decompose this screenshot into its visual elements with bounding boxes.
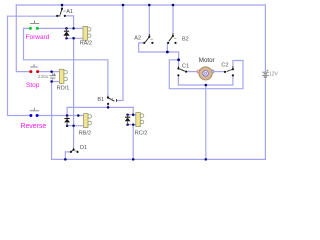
node top bus A2 bbox=[148, 4, 151, 7]
diode DC (across RC/2) bbox=[125, 115, 131, 125]
wire A2-left to switched rail bbox=[139, 43, 179, 60]
wire A2 hinge feed bbox=[148, 5, 150, 34]
node RA bottom diode bbox=[65, 37, 68, 40]
node top bus A1 bbox=[61, 4, 64, 7]
contact C2 bbox=[224, 66, 234, 76]
node stop cap top bbox=[50, 70, 53, 73]
node RB bottom return bbox=[72, 124, 75, 127]
node bottom bus RC bbox=[132, 158, 135, 161]
capacitor 220u (across RD/1) bbox=[50, 73, 56, 78]
node RC bottom drop bbox=[132, 123, 135, 126]
node RC bottom diode bbox=[126, 123, 129, 126]
node RB bottom diode bbox=[66, 124, 69, 127]
contact A2 bbox=[143, 34, 153, 44]
wire C1 bottom, 0V link, C2 bottom bbox=[178, 76, 233, 85]
wire capacitor stubs bbox=[52, 72, 54, 82]
wire battery to bottom bus bbox=[264, 78, 266, 160]
wire y107 link line bbox=[67, 106, 133, 108]
node RA bottom return bbox=[72, 37, 75, 40]
wire B1 bottom stub bbox=[107, 105, 109, 108]
contact B1 bbox=[107, 96, 117, 105]
svg-text:B2: B2 bbox=[182, 37, 189, 43]
wire B2 hinge feed bbox=[172, 5, 174, 33]
node top bus B2 bbox=[172, 4, 175, 7]
node RA top A1drop bbox=[72, 27, 75, 30]
contact B2 bbox=[167, 33, 177, 44]
node RB top pin bbox=[77, 114, 80, 117]
pushbutton Reverse bbox=[29, 108, 39, 117]
wire y107 left drop to RB top rail bbox=[66, 107, 68, 115]
svg-text:Reverse: Reverse bbox=[21, 123, 47, 130]
wire B1 fixed feed from top bus bbox=[117, 5, 123, 101]
svg-text:Motor: Motor bbox=[199, 57, 215, 64]
relay coil RB/2 bbox=[84, 114, 92, 128]
contact C1 bbox=[177, 66, 187, 76]
wire bottom bus bbox=[52, 158, 266, 160]
wire RD return drop to bottom bus bbox=[51, 82, 53, 160]
wire D1 left to bottom bus bbox=[65, 152, 70, 160]
node top bus B1 bbox=[122, 4, 125, 7]
contact A1 bbox=[56, 8, 66, 17]
node bottom bus motor bbox=[205, 158, 208, 161]
diode DA (across RA/2) bbox=[63, 28, 69, 38]
wire coil return vertical RA to D1 bbox=[73, 38, 75, 148]
wire y107 right drop to RC top rail bbox=[132, 107, 134, 114]
contact D1 bbox=[70, 148, 79, 153]
node bottom bus D1 bbox=[64, 158, 67, 161]
node switched rail B2 bbox=[166, 51, 169, 54]
pushbutton Forward bbox=[29, 21, 39, 30]
wire A1 right to RA top rail bbox=[65, 16, 73, 29]
wire motor 0V drop bbox=[205, 85, 207, 159]
wire motor to C2 bbox=[212, 71, 224, 73]
svg-text:D1: D1 bbox=[80, 145, 87, 151]
wire right drop bus to battery bbox=[264, 5, 266, 71]
battery 12V bbox=[262, 70, 269, 78]
wire RC bottom rail bbox=[128, 124, 136, 126]
wire RD bottom rail bbox=[52, 81, 60, 83]
node RD bottom cap bbox=[50, 80, 53, 83]
svg-text:A2: A2 bbox=[134, 35, 141, 41]
wire B2-left drop bbox=[166, 43, 168, 52]
node motor 0V bbox=[205, 84, 208, 87]
svg-text:RA/2: RA/2 bbox=[80, 41, 92, 47]
node RC top diode bbox=[126, 113, 129, 116]
svg-text:12V: 12V bbox=[269, 71, 279, 77]
wire reverse row right / RB top rail bbox=[38, 115, 83, 117]
wire stop feed from top bus bbox=[16, 5, 30, 72]
svg-text:Stop: Stop bbox=[26, 82, 40, 89]
wire C1 hinge feed bbox=[178, 60, 180, 67]
svg-text:C1: C1 bbox=[182, 63, 189, 69]
wire A1 row left bbox=[8, 15, 57, 17]
wire forward row right / RA top rail bbox=[38, 27, 83, 29]
wire RD top rail bbox=[39, 71, 60, 73]
relay coil RA/2 bbox=[83, 26, 91, 40]
svg-text:RB/2: RB/2 bbox=[79, 131, 91, 137]
node RB top diode bbox=[66, 114, 69, 117]
relay coil RC/2 bbox=[136, 113, 144, 127]
wire top bus bbox=[16, 4, 265, 6]
wire RA bottom rail bbox=[67, 37, 84, 39]
node RA top diode bbox=[65, 27, 68, 30]
wire A1 hinge feed bbox=[61, 5, 63, 8]
svg-text:C2: C2 bbox=[221, 63, 228, 69]
diode DB (across RB/2) bbox=[64, 116, 70, 126]
svg-text:220u: 220u bbox=[38, 74, 49, 80]
wire C1 to motor bbox=[187, 71, 199, 73]
motor M bbox=[197, 67, 214, 80]
wire RB bottom rail bbox=[67, 125, 83, 127]
wire RC return drop to bottom bus bbox=[132, 125, 134, 160]
relay coil RD/1 bbox=[59, 69, 67, 83]
wire bypass to C2 hinge bbox=[169, 60, 243, 89]
node RC top drop bbox=[132, 113, 135, 116]
svg-text:B1: B1 bbox=[97, 97, 104, 103]
node C1 top bbox=[177, 58, 180, 61]
wire forward-left drop, y59.5 rail, B1 drop bbox=[24, 28, 108, 95]
wire forward row left bbox=[24, 27, 30, 29]
svg-text:A1: A1 bbox=[66, 9, 73, 15]
node B1 bottom line bbox=[107, 106, 110, 109]
svg-text:Forward: Forward bbox=[26, 34, 50, 41]
pushbutton Stop bbox=[29, 64, 39, 73]
svg-text:RD/1: RD/1 bbox=[57, 86, 70, 92]
wire left drop to reverse row bbox=[8, 16, 30, 115]
wire RC top rail bbox=[128, 114, 136, 116]
svg-text:RC/2: RC/2 bbox=[135, 131, 148, 137]
